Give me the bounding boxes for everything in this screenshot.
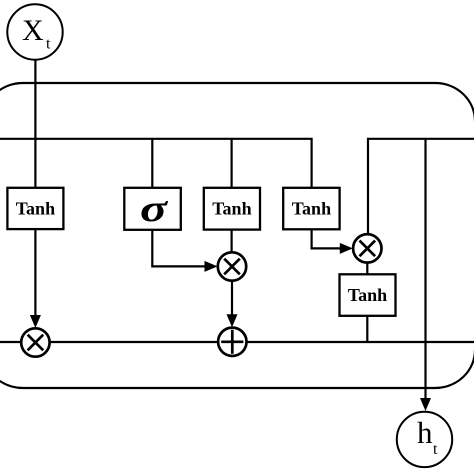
box Tanh3 xyxy=(283,188,339,230)
wire: drop to sigma box xyxy=(151,139,153,188)
wire: mult3 output down to Tanh4 xyxy=(366,262,368,275)
svg-text:Tanh: Tanh xyxy=(16,199,55,219)
node mult3 (circle-cross) xyxy=(353,234,381,262)
wire: sigma output elbow to mult2 xyxy=(152,230,207,266)
input circle Xt xyxy=(7,4,62,59)
svg-text:X: X xyxy=(22,14,44,47)
arrowhead into mult3 from Tanh3 xyxy=(340,243,353,254)
svg-text:Tanh: Tanh xyxy=(348,285,387,305)
wire: Tanh3 output elbow to mult3 xyxy=(312,229,343,248)
node mult1 (circle-cross) on bottom bus xyxy=(21,328,49,356)
outer cell boundary bottom-right corner arc xyxy=(435,350,474,388)
svg-text:σ: σ xyxy=(140,187,169,230)
wire: upper horizontal bus right segment with drop to mult node xyxy=(368,139,474,236)
svg-text:h: h xyxy=(417,415,433,450)
arrowhead into mult2 from sigma xyxy=(205,261,218,272)
node plus (circle-plus) on bottom bus xyxy=(218,328,246,356)
wire: drop to Tanh2 box xyxy=(231,139,233,188)
svg-text:Tanh: Tanh xyxy=(212,199,251,219)
wire: Tanh2 output down to mult2 xyxy=(231,229,233,253)
wire: Tanh4 output down to bottom bus xyxy=(366,315,368,342)
outer cell boundary top-right corner arc xyxy=(435,83,474,121)
svg-text:t: t xyxy=(46,36,51,53)
wire: upper horizontal bus left segment xyxy=(0,139,312,188)
wire: bottom horizontal bus xyxy=(0,341,474,343)
node mult2 (circle-cross) xyxy=(218,252,246,280)
box Tanh1 xyxy=(7,188,63,229)
wire: mult2 output down to plus node xyxy=(231,280,233,317)
svg-text:t: t xyxy=(433,441,438,458)
outer cell rounded boundary xyxy=(0,83,435,388)
output circle ht xyxy=(397,412,452,467)
box Tanh4 xyxy=(340,274,396,316)
box Tanh2 xyxy=(204,188,260,230)
arrowhead into ht xyxy=(420,398,431,411)
svg-text:Tanh: Tanh xyxy=(292,199,331,219)
wire: input line from Xt down to Tanh1 xyxy=(34,59,36,188)
wire: output line down to ht xyxy=(424,139,426,400)
arrowhead into mult1 xyxy=(30,315,41,328)
box sigma xyxy=(124,188,181,230)
arrowhead into plus node xyxy=(227,314,238,327)
wire: Tanh1 output down to mult1 xyxy=(34,229,36,317)
